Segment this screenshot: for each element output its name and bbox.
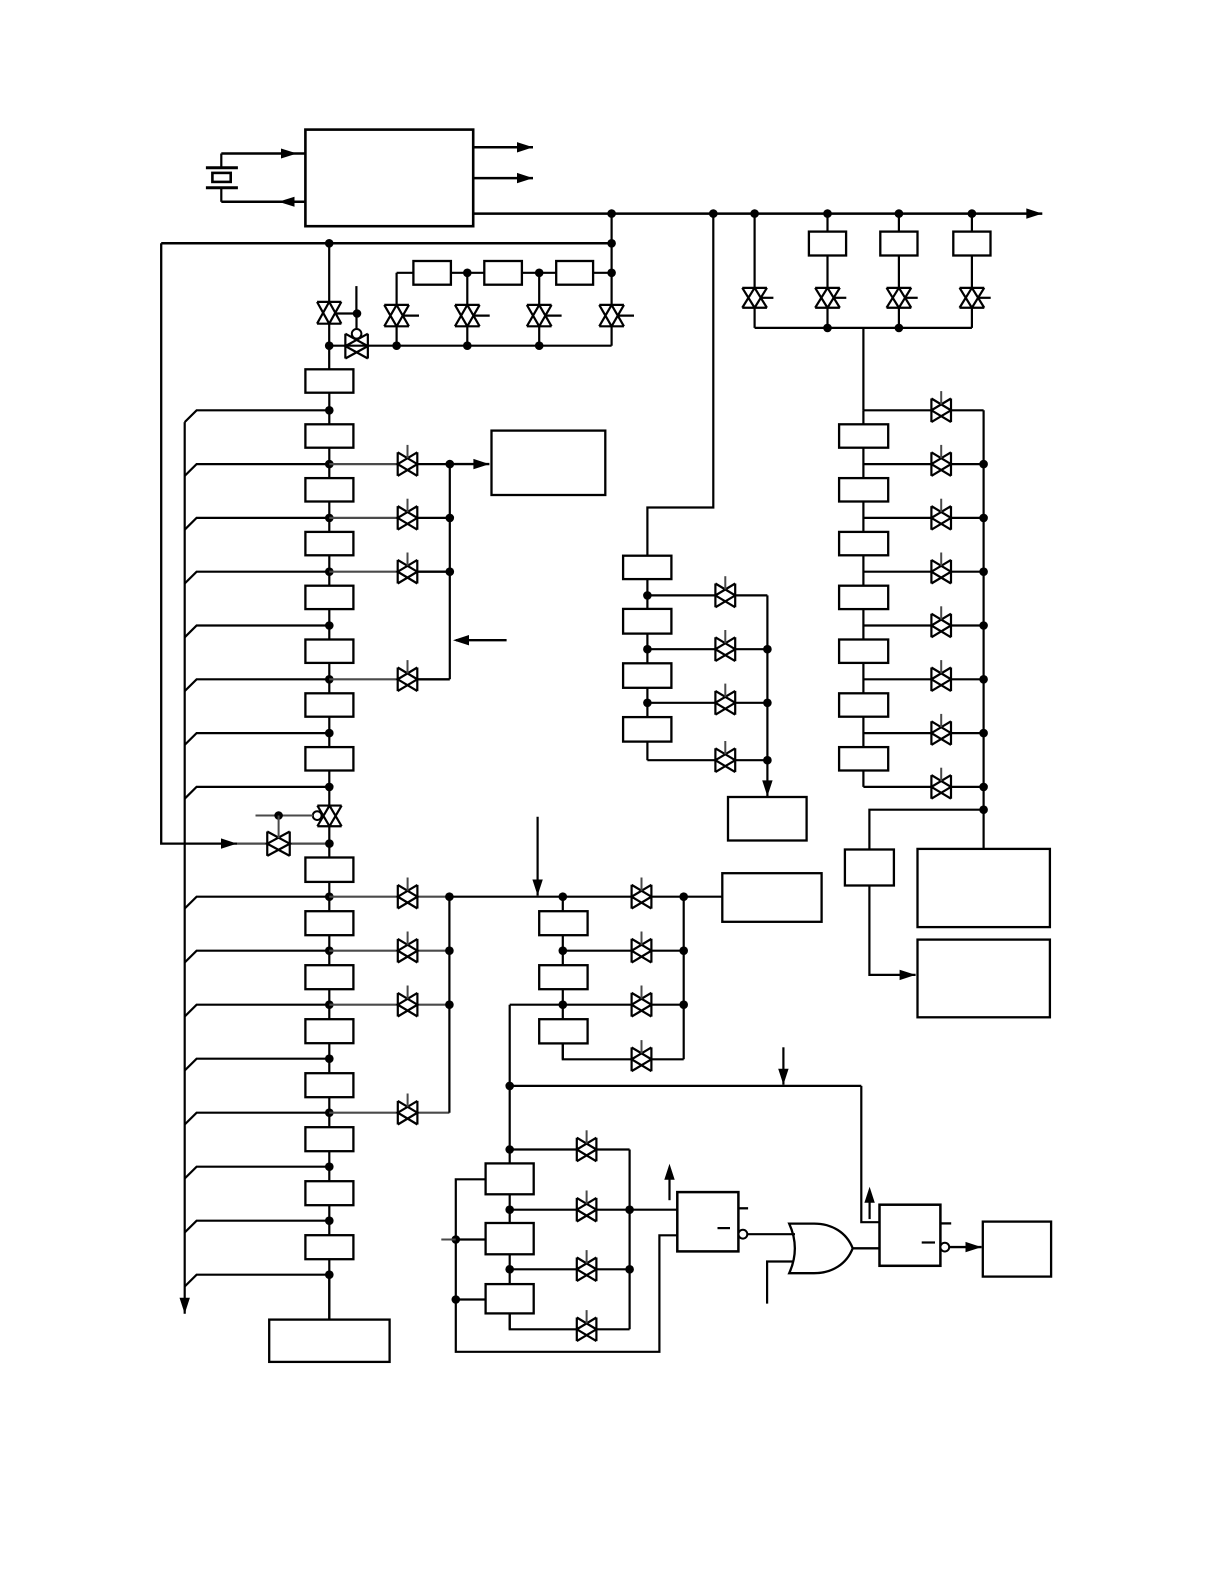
block B4 xyxy=(305,1073,353,1097)
inner rail xyxy=(184,422,186,1314)
node Lrail J1 xyxy=(452,1235,461,1244)
node chain row13 xyxy=(325,1108,334,1117)
block R xyxy=(492,431,606,495)
node manifold J1 xyxy=(325,341,334,350)
gate U3 xyxy=(880,1205,941,1266)
valve Z2 stem xyxy=(724,630,726,643)
node chain row2 xyxy=(325,460,334,469)
wire return from controller with arrow xyxy=(221,197,305,207)
gate U3 dash xyxy=(922,1241,935,1243)
wire V11 drop xyxy=(898,214,900,328)
gate U2 xyxy=(677,1192,738,1251)
top-right rail xyxy=(755,327,972,329)
branch wire row14 xyxy=(185,1167,330,1179)
branch wire row13 xyxy=(185,1113,330,1125)
block W xyxy=(722,873,821,922)
secondary bus xyxy=(161,242,611,245)
wire to block V xyxy=(869,810,983,850)
gate U3 tick xyxy=(940,1222,951,1224)
wire V to Y arrow xyxy=(869,886,915,981)
gate U3 bubble xyxy=(940,1243,949,1252)
valve Y1 xyxy=(632,885,652,909)
valve RV6 xyxy=(931,668,951,692)
wire rrow4 xyxy=(863,571,983,573)
node Scoll J1 xyxy=(679,946,688,955)
wire to block J xyxy=(328,1275,330,1320)
wire stage2 header xyxy=(449,896,722,898)
valve V4 dash xyxy=(474,315,490,317)
node rcoll J8 xyxy=(979,805,988,814)
block D1 xyxy=(809,232,846,256)
node rail J1 xyxy=(823,324,832,333)
stub input xyxy=(441,1239,456,1241)
group1 collector xyxy=(449,464,451,679)
node chain row9 xyxy=(325,892,334,901)
wire OR output xyxy=(853,1247,880,1249)
node rcoll J7 xyxy=(979,783,988,792)
wire V1 drop xyxy=(328,243,330,369)
node rcoll J1 xyxy=(979,460,988,469)
node chain row12 xyxy=(325,1054,334,1063)
node rail J2 xyxy=(895,324,904,333)
valve X3 xyxy=(398,993,418,1017)
block Y xyxy=(918,940,1050,1018)
L left rail xyxy=(456,1179,678,1352)
node M2coll J1 xyxy=(763,645,772,654)
valve V5 xyxy=(527,305,552,326)
S chain wire xyxy=(562,897,564,1060)
valve Z1 xyxy=(715,584,735,608)
valve V11 dash xyxy=(905,297,918,299)
valve W2 stem xyxy=(407,499,409,512)
block A8 xyxy=(305,858,353,882)
block A1 xyxy=(305,424,353,447)
block D3 xyxy=(953,232,990,256)
wire OR input2 xyxy=(767,1262,794,1304)
block A5 xyxy=(305,640,353,663)
wire rrow1 xyxy=(863,409,983,411)
M2 collector xyxy=(766,595,768,760)
block B1 xyxy=(305,911,353,935)
output arrow 1 xyxy=(473,142,533,152)
wire bus riser xyxy=(610,214,612,346)
valve V3 xyxy=(384,305,409,326)
valve X4 xyxy=(398,1101,418,1125)
block B6 xyxy=(305,1181,353,1205)
valve RV7 stem xyxy=(940,714,942,727)
block A4 xyxy=(305,586,353,609)
node L J1 xyxy=(505,1205,514,1214)
node rcoll J6 xyxy=(979,729,988,738)
valve Z2 xyxy=(715,637,735,661)
node rcoll J5 xyxy=(979,675,988,684)
wire U2 to OR xyxy=(747,1233,795,1235)
block J (bottom) xyxy=(269,1320,389,1362)
block L2 xyxy=(486,1223,534,1254)
node coll2 J3 xyxy=(445,1000,454,1009)
wire rrow3 xyxy=(863,517,983,519)
branch wire row15 xyxy=(185,1221,330,1233)
right chain wire xyxy=(862,410,864,787)
valve Q1 xyxy=(577,1138,597,1162)
wire rail to L2 xyxy=(456,1238,486,1240)
valve Q3 stem xyxy=(586,1250,588,1263)
valve W1 xyxy=(398,452,418,476)
block M1 xyxy=(623,556,671,579)
arrow U3 to block Z xyxy=(949,1242,981,1252)
node bus J4 xyxy=(823,209,832,218)
wire row to valve X1 xyxy=(329,896,449,898)
node header J2 xyxy=(679,892,688,901)
node chain row4 xyxy=(325,567,334,576)
wire V8 line xyxy=(237,842,329,844)
branch wire row3 xyxy=(185,518,330,530)
valve W3 xyxy=(398,560,418,584)
branch wire row4 xyxy=(185,572,330,584)
outer rail xyxy=(161,243,237,843)
node bus2 J7 xyxy=(325,239,334,248)
block B3 xyxy=(305,1019,353,1043)
valve RV3 xyxy=(931,506,951,530)
up arrow near U2 xyxy=(664,1164,674,1200)
node L J2 xyxy=(505,1265,514,1274)
wire M2 row3 xyxy=(647,702,767,704)
wire row to valve X3 xyxy=(329,1004,449,1006)
wire V1 pilot stem xyxy=(355,286,357,313)
wire L row3 xyxy=(510,1268,630,1270)
node elbow J1 xyxy=(505,1082,514,1091)
wire V3 branch xyxy=(396,273,398,346)
node S J2 xyxy=(559,1000,568,1009)
wire L row4 xyxy=(510,1313,630,1329)
node M2 row1 xyxy=(643,591,652,600)
block R1 xyxy=(839,424,888,447)
wire rrow7 xyxy=(863,732,983,734)
wire row to valve W3 xyxy=(329,571,407,573)
branch wire row7 xyxy=(185,733,330,745)
wire M2 row1 xyxy=(647,594,767,596)
valve V7 (pilot) xyxy=(317,806,341,827)
node Lcoll J1 xyxy=(625,1205,634,1214)
node Lrail J2 xyxy=(452,1295,461,1304)
valve Z3 stem xyxy=(724,684,726,697)
branch wire row10 xyxy=(185,951,330,963)
wire row to valve W4 xyxy=(329,678,407,680)
valve RV6 stem xyxy=(940,660,942,673)
wire V1 actuator xyxy=(335,312,357,314)
valve W4 stem xyxy=(407,660,409,673)
block L3 xyxy=(486,1284,534,1313)
inner rail arrow xyxy=(180,1298,190,1314)
valve Q3 xyxy=(577,1258,597,1282)
wire rrow2 xyxy=(863,463,983,465)
block A7 xyxy=(305,747,353,770)
node M2coll J2 xyxy=(763,699,772,708)
node chain row1 xyxy=(325,406,334,415)
wire series chain xyxy=(397,272,612,274)
branch wire row16 xyxy=(185,1275,330,1287)
valve V12 dash xyxy=(978,297,991,299)
block R5 xyxy=(839,640,888,663)
M2 chain wire xyxy=(646,556,648,761)
valve Y4 xyxy=(632,1047,652,1071)
valve Z4 xyxy=(715,748,735,772)
valve Z4 stem xyxy=(724,741,726,754)
wire M2 row2 xyxy=(647,648,767,650)
block S1 xyxy=(539,911,587,935)
node M2coll J3 xyxy=(763,756,772,765)
node Scoll J2 xyxy=(679,1000,688,1009)
wire S row2 xyxy=(563,950,684,952)
valve W2 xyxy=(398,506,418,530)
node bus J2 xyxy=(709,209,718,218)
block R7 xyxy=(839,747,888,770)
right collector xyxy=(982,410,984,849)
branch wire row1 xyxy=(185,410,330,422)
node chain row10 xyxy=(325,946,334,955)
block U xyxy=(728,797,807,841)
wire M2 row4 xyxy=(647,759,767,761)
node chain J3 xyxy=(607,269,616,278)
node chain row15 xyxy=(325,1216,334,1225)
valve X4 stem xyxy=(407,1094,409,1107)
block R4 xyxy=(839,586,888,609)
valve Y2 xyxy=(632,939,652,963)
valve V12 xyxy=(960,288,985,308)
wire V9 drop xyxy=(753,214,755,328)
block C1 xyxy=(413,261,451,285)
node manifold J3 xyxy=(463,341,472,350)
valve V5 dash xyxy=(545,315,561,317)
node Lcoll J2 xyxy=(625,1265,634,1274)
valve X1 xyxy=(398,885,418,909)
valve Y1 stem xyxy=(641,878,643,891)
node bus2 J8 xyxy=(607,239,616,248)
group2 collector xyxy=(448,897,450,1113)
node rcoll J2 xyxy=(979,514,988,523)
node rcoll J4 xyxy=(979,621,988,630)
valve V1 xyxy=(317,302,341,324)
node chain J2 xyxy=(535,269,544,278)
node chain row14 xyxy=(325,1162,334,1171)
node V1 pilot xyxy=(353,309,362,318)
block B7 xyxy=(305,1235,353,1259)
block B5 xyxy=(305,1127,353,1151)
or gate G1 xyxy=(789,1224,853,1274)
valve RV3 stem xyxy=(940,499,942,512)
output arrow 2 xyxy=(473,173,533,183)
wire row to valve W1 xyxy=(329,463,407,465)
valve RV5 xyxy=(931,614,951,638)
branch wire row9 xyxy=(185,897,330,909)
input arrow left xyxy=(453,635,507,645)
valve Z3 xyxy=(715,691,735,715)
L collector xyxy=(628,1150,630,1330)
node chain row5 xyxy=(325,621,334,630)
node bus J6 xyxy=(968,209,977,218)
wire S row3 xyxy=(510,1004,684,1006)
valve RV5 stem xyxy=(940,606,942,619)
wire rrow8 xyxy=(863,786,983,788)
node elbow J2 xyxy=(505,1145,514,1154)
node coll1 J3 xyxy=(446,567,455,576)
valve V6 xyxy=(599,305,624,326)
node chain row6 xyxy=(325,675,334,684)
node coll2 J2 xyxy=(445,946,454,955)
node manifold J4 xyxy=(535,341,544,350)
arrow to block R xyxy=(450,459,490,469)
node chain row7 xyxy=(325,729,334,738)
wire L row2 xyxy=(510,1209,630,1211)
branch wire row5 xyxy=(185,626,330,638)
valve Z1 stem xyxy=(724,576,726,589)
valve X2 xyxy=(398,939,418,963)
wire V4 branch xyxy=(466,273,468,346)
wire rrow5 xyxy=(863,624,983,626)
node chain row3 xyxy=(325,514,334,523)
block B2 xyxy=(305,965,353,989)
valve RV4 stem xyxy=(940,553,942,566)
valve V8 xyxy=(267,832,290,856)
left chain wire xyxy=(328,369,330,1319)
wire V10 drop xyxy=(826,214,828,328)
node bus J5 xyxy=(895,209,904,218)
gate U2 bubble xyxy=(739,1230,748,1239)
valve W3 stem xyxy=(407,553,409,566)
wire rrow6 xyxy=(863,678,983,680)
node chain row16 xyxy=(325,1270,334,1279)
wire supply to controller with arrow xyxy=(221,149,305,159)
valve RV1 stem xyxy=(940,391,942,404)
valve V2 xyxy=(345,334,368,359)
branch wire row8 xyxy=(185,787,330,799)
valve Q2 xyxy=(577,1198,597,1222)
valve RV8 xyxy=(931,775,951,799)
block S3 xyxy=(539,1019,587,1043)
arrow into V8 xyxy=(221,838,237,848)
branch wire row2 xyxy=(185,464,330,476)
valve V6 dash xyxy=(618,315,634,317)
valve Q4 stem xyxy=(586,1310,588,1323)
valve W1 stem xyxy=(407,445,409,458)
block L1 xyxy=(486,1163,534,1194)
node bus J1 xyxy=(607,209,616,218)
block Z xyxy=(983,1222,1051,1277)
node coll2 J1 xyxy=(445,892,454,901)
block X xyxy=(918,849,1050,927)
gate U2 dash xyxy=(718,1227,731,1229)
node M2 row2 xyxy=(643,645,652,654)
block C3 xyxy=(556,261,593,285)
wire V8 pilot xyxy=(256,815,314,817)
valve Y2 stem xyxy=(641,932,643,945)
node M2 row3 xyxy=(643,699,652,708)
node chain V8 xyxy=(325,839,334,848)
pilot circle V2 xyxy=(352,329,362,339)
valve RV8 stem xyxy=(940,768,942,781)
valve X2 stem xyxy=(407,932,409,945)
wire V12 drop xyxy=(971,214,973,328)
block R2 xyxy=(839,478,888,501)
arrow into block U xyxy=(762,760,772,796)
node coll1 J2 xyxy=(446,514,455,523)
wire row to valve X2 xyxy=(329,950,449,952)
node chain J1 xyxy=(463,269,472,278)
valve V11 xyxy=(887,288,912,308)
node rcoll J3 xyxy=(979,567,988,576)
block S2 xyxy=(539,965,587,989)
valve Y3 xyxy=(632,993,652,1017)
S collector xyxy=(683,897,685,1060)
block C2 xyxy=(484,261,522,285)
valve RV2 xyxy=(931,452,951,476)
node bus J3 xyxy=(750,209,759,218)
valve V3 dash xyxy=(403,315,419,317)
valve V4 xyxy=(455,305,480,326)
valve X3 stem xyxy=(407,986,409,999)
block R3 xyxy=(839,532,888,555)
node chain row11 xyxy=(325,1000,334,1009)
valve W4 xyxy=(398,668,418,692)
wire long branch xyxy=(510,1085,862,1087)
down arrow onto branch xyxy=(778,1047,788,1084)
node S J1 xyxy=(559,946,568,955)
branch wire row11 xyxy=(185,1005,330,1017)
block A2 xyxy=(305,478,353,501)
controller block B1 xyxy=(305,130,473,227)
wire rail to L3 xyxy=(456,1298,486,1300)
block A3 xyxy=(305,532,353,555)
power source (battery symbol) xyxy=(206,154,238,202)
block D2 xyxy=(880,232,917,256)
block A6 xyxy=(305,693,353,716)
valve RV4 xyxy=(931,560,951,584)
wire elbow xyxy=(509,1005,511,1329)
block V xyxy=(845,850,894,886)
valve V9 xyxy=(742,288,767,308)
node manifold J2 xyxy=(392,341,401,350)
valve Q1 stem xyxy=(586,1130,588,1143)
up arrow near U3 xyxy=(864,1187,874,1219)
branch wire row12 xyxy=(185,1059,330,1071)
branch wire row6 xyxy=(185,679,330,691)
valve RV2 stem xyxy=(940,445,942,458)
node coll1 J1 xyxy=(446,460,455,469)
wire rail drop to right chain xyxy=(862,328,864,410)
valve Y3 stem xyxy=(641,986,643,999)
valve V10 xyxy=(815,288,840,308)
pilot circle V7 xyxy=(313,811,322,820)
valve RV7 xyxy=(931,721,951,745)
wire collector to U2 xyxy=(630,1209,678,1211)
block M2 xyxy=(623,609,671,634)
wire row to valve X4 xyxy=(329,1112,449,1114)
valve Y4 stem xyxy=(641,1040,643,1053)
down arrow onto header xyxy=(532,817,542,896)
valve Q4 xyxy=(577,1318,597,1342)
node header J1 xyxy=(559,892,568,901)
wire branch to U3 xyxy=(861,1086,879,1222)
wire L row1 xyxy=(510,1148,630,1150)
wire row to valve W2 xyxy=(329,517,407,519)
block R6 xyxy=(839,693,888,716)
node chain row8 xyxy=(325,783,334,792)
valve V10 dash xyxy=(834,297,847,299)
node V8 pilot xyxy=(274,811,283,820)
valve Q2 stem xyxy=(586,1191,588,1204)
block A0 xyxy=(305,369,353,392)
wire S row4 xyxy=(563,1043,684,1059)
